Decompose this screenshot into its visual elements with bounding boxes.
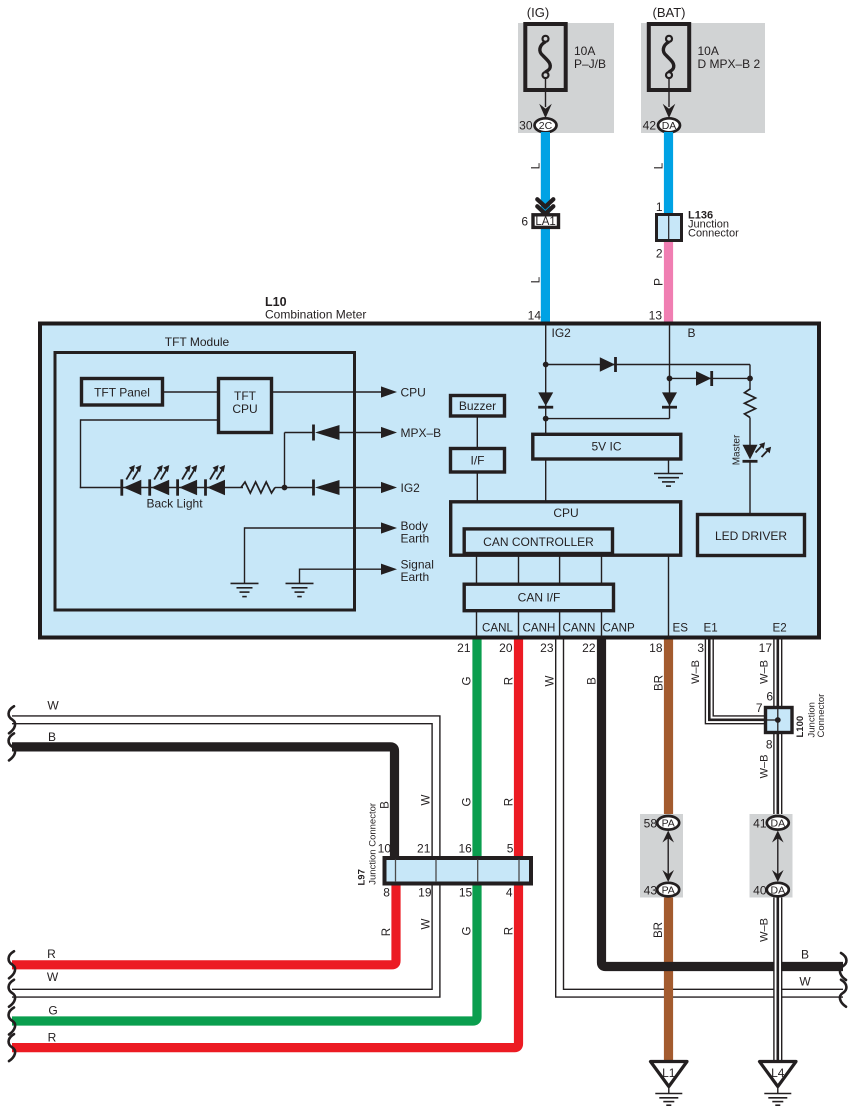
svg-text:CPU: CPU (232, 402, 257, 416)
svg-text:DA: DA (771, 884, 786, 896)
svg-text:G: G (461, 797, 474, 806)
svg-text:6: 6 (521, 215, 528, 229)
node master branch (747, 376, 753, 382)
wire TFT Panel to TFT CPU (164, 391, 217, 393)
wire IG2 internal (545, 325, 547, 433)
resistor backlight (241, 482, 275, 493)
brace W top left (9, 706, 16, 733)
svg-text:10A: 10A (574, 44, 595, 58)
svg-text:7: 7 (756, 701, 763, 715)
wire W top left to L97 pin 21 (12, 720, 436, 856)
wire B pin 22 to right (602, 640, 844, 967)
svg-text:Back Light: Back Light (147, 497, 204, 511)
ground signal earth (286, 582, 314, 584)
svg-text:LED DRIVER: LED DRIVER (715, 529, 787, 543)
node 5V IC feed (543, 416, 549, 422)
connector pair PA background (640, 814, 683, 898)
connector pin 43 PA (657, 883, 679, 897)
svg-text:40: 40 (753, 883, 767, 897)
svg-text:TFT: TFT (234, 389, 257, 403)
combination meter box L10 (40, 324, 819, 638)
svg-text:23: 23 (540, 641, 554, 655)
LED DRIVER box (698, 515, 805, 556)
CAN I/F box (464, 584, 613, 611)
node backlight junction (282, 485, 288, 491)
svg-text:58: 58 (644, 817, 658, 831)
svg-text:CANP: CANP (603, 622, 635, 635)
svg-text:Connector: Connector (688, 228, 739, 240)
svg-text:IG2: IG2 (552, 326, 572, 340)
brace R left (9, 951, 16, 978)
svg-text:W: W (47, 970, 59, 984)
svg-text:B: B (585, 677, 598, 685)
svg-text:L97: L97 (357, 869, 368, 885)
svg-text:5V IC: 5V IC (591, 440, 621, 454)
svg-text:CANL: CANL (482, 622, 513, 635)
svg-text:B: B (801, 948, 809, 962)
fuse 10A P-J/B (525, 24, 565, 90)
arrow between DA connectors (777, 834, 779, 878)
svg-text:16: 16 (458, 841, 472, 855)
svg-text:Earth: Earth (401, 570, 430, 584)
backlight LED 2 (148, 479, 151, 495)
svg-text:R: R (47, 947, 56, 961)
svg-text:DA: DA (662, 120, 677, 132)
svg-text:G: G (461, 676, 474, 685)
svg-text:DA: DA (771, 818, 786, 830)
connector pin 30 (535, 118, 557, 132)
brace G left (9, 1008, 16, 1035)
svg-text:W: W (47, 699, 59, 713)
svg-text:21: 21 (417, 841, 431, 855)
svg-text:BR: BR (652, 922, 665, 938)
ground body earth (231, 582, 259, 584)
svg-text:Combination Meter: Combination Meter (265, 308, 366, 322)
brace W right (840, 980, 847, 1007)
wire TFT CPU left to backlight chain (81, 419, 219, 421)
svg-text:R: R (502, 677, 515, 685)
svg-text:BR: BR (652, 675, 665, 691)
svg-text:Connector: Connector (816, 694, 827, 738)
junction connector L100 (766, 708, 793, 733)
svg-text:(BAT): (BAT) (653, 5, 686, 20)
backlight LED 4 (204, 479, 207, 495)
svg-text:W–B: W–B (759, 918, 771, 942)
diode down on B line (662, 392, 677, 406)
wire R L97 pin 8 to left (12, 886, 396, 965)
svg-text:L4: L4 (771, 1066, 785, 1080)
brace B right (840, 953, 847, 980)
connector pair DA background (750, 814, 793, 898)
svg-text:8: 8 (766, 738, 773, 752)
svg-text:IG2: IG2 (401, 481, 421, 495)
connector LA1 (533, 215, 559, 228)
wire fuse 10A D MPX-B 2 to connector (668, 78, 670, 107)
svg-text:W: W (420, 918, 433, 929)
brace W bottom left (9, 980, 16, 1007)
wire IG2 to diode D1 (546, 364, 750, 366)
svg-text:TFT Panel: TFT Panel (94, 386, 150, 400)
svg-text:30: 30 (519, 119, 533, 133)
svg-text:L100: L100 (795, 716, 806, 738)
CPU box (451, 502, 681, 555)
svg-text:8: 8 (383, 885, 390, 899)
svg-text:I/F: I/F (471, 454, 485, 468)
wire fuse 10A P-J/B to connector (545, 78, 547, 107)
wire diode outputs join (546, 418, 670, 420)
svg-text:1: 1 (656, 200, 663, 214)
junction connector L97 (385, 858, 532, 884)
svg-text:43: 43 (644, 883, 658, 897)
svg-text:L: L (652, 162, 666, 169)
wire W-B E1 pin 3 to L100 pin 7 (709, 640, 766, 720)
wire G pin 21 to bottom left (12, 640, 477, 1022)
junction connector L136 (657, 215, 682, 241)
svg-text:20: 20 (499, 641, 513, 655)
svg-text:R: R (380, 928, 393, 936)
ground L4 (760, 1062, 797, 1087)
svg-text:PA: PA (662, 818, 675, 830)
backlight LED 3 (176, 479, 179, 495)
svg-text:P: P (652, 278, 666, 286)
wire signal earth (300, 568, 383, 570)
svg-text:15: 15 (459, 885, 473, 899)
svg-text:2C: 2C (539, 120, 553, 132)
splice chevrons on IG wire (537, 199, 553, 207)
svg-text:Master: Master (732, 434, 743, 465)
wire junction to IG2 diode (285, 487, 314, 489)
svg-text:MPX–B: MPX–B (401, 426, 442, 440)
svg-text:18: 18 (649, 641, 663, 655)
svg-text:TFT Module: TFT Module (165, 335, 230, 349)
fuse block background 10A D MPX-B 2 (641, 23, 765, 133)
wire B to diode D2 (670, 377, 751, 379)
TFT Panel box (82, 379, 163, 406)
svg-text:Earth: Earth (401, 532, 430, 546)
svg-text:CAN I/F: CAN I/F (518, 591, 561, 605)
wire body earth (245, 527, 383, 529)
connector pin 40 DA (767, 883, 789, 897)
connector pin 58 PA (657, 816, 679, 830)
svg-text:R: R (502, 798, 515, 806)
svg-text:2: 2 (656, 247, 663, 261)
svg-text:R: R (48, 1031, 57, 1045)
svg-text:CANH: CANH (523, 622, 556, 635)
svg-text:W: W (420, 794, 433, 805)
svg-text:L1: L1 (662, 1066, 676, 1080)
svg-text:ES: ES (673, 622, 689, 635)
wire B left to L97 pin 10 (12, 747, 395, 856)
LED master (743, 445, 758, 460)
svg-text:G: G (48, 1004, 57, 1018)
TFT module box (55, 353, 355, 611)
svg-text:Buzzer: Buzzer (459, 399, 496, 413)
svg-text:P–J/B: P–J/B (574, 57, 606, 71)
wire BR pin 18 to ground L1 (664, 640, 673, 1062)
svg-text:6: 6 (766, 690, 773, 704)
wires CAN controller to CAN IF (476, 555, 478, 584)
wire L blue from fuse BAT pin DA to junction L136 (664, 132, 673, 214)
TFT CPU box (219, 379, 272, 433)
node B line (667, 376, 673, 382)
wire R pin 20 to bottom left (12, 640, 519, 1048)
brace B left (9, 733, 16, 760)
svg-text:10A: 10A (698, 44, 719, 58)
diode to MPX-B (312, 425, 315, 441)
ground L1 (651, 1062, 688, 1087)
svg-text:17: 17 (759, 641, 773, 655)
svg-text:21: 21 (457, 641, 471, 655)
arrow between PA connectors (667, 834, 669, 878)
wire junction to MPX-B diode (284, 433, 286, 488)
wires CAN IF to pins (476, 610, 478, 638)
svg-text:3: 3 (697, 641, 704, 655)
wire buzzer to IF (476, 416, 478, 448)
svg-text:L: L (529, 276, 543, 283)
svg-text:L: L (529, 162, 543, 169)
diode to IG2 (312, 480, 315, 496)
wire B internal (669, 325, 671, 419)
ground 5V IC (668, 459, 670, 474)
Buzzer box (451, 396, 505, 417)
svg-text:19: 19 (418, 885, 432, 899)
backlight LED chain wire (80, 487, 243, 489)
svg-text:41: 41 (753, 817, 767, 831)
5V IC box (533, 434, 681, 459)
svg-text:Junction Connector: Junction Connector (368, 803, 379, 885)
CAN CONTROLLER box (464, 529, 612, 554)
svg-text:R: R (502, 927, 515, 935)
svg-text:W–B: W–B (759, 755, 771, 779)
backlight LED 1 (120, 479, 123, 495)
node IG2 top (543, 362, 549, 368)
svg-text:W: W (544, 675, 557, 686)
svg-text:CPU: CPU (553, 506, 578, 520)
svg-text:4: 4 (506, 885, 513, 899)
I/F box (451, 449, 505, 473)
wire IF to CPU (476, 472, 478, 501)
svg-text:B: B (378, 801, 391, 809)
wire ES internal (668, 555, 670, 638)
svg-text:D MPX–B 2: D MPX–B 2 (698, 57, 761, 71)
wire W pin 23 to bottom right (560, 640, 843, 994)
svg-text:E1: E1 (704, 622, 718, 635)
svg-text:W–B: W–B (759, 660, 771, 684)
svg-text:W: W (799, 975, 811, 989)
svg-text:LA1: LA1 (535, 216, 555, 228)
svg-text:10: 10 (378, 841, 392, 855)
svg-text:22: 22 (582, 641, 596, 655)
svg-text:CAN CONTROLLER: CAN CONTROLLER (483, 535, 594, 549)
svg-text:CPU: CPU (401, 386, 426, 400)
svg-text:CANN: CANN (563, 622, 596, 635)
svg-text:B: B (688, 326, 696, 340)
wire 5VIC to CPU (545, 459, 547, 501)
svg-text:W–B: W–B (690, 660, 702, 684)
wire L blue from fuse IG pin 2C to pin 14 (541, 132, 550, 322)
resistor master (745, 389, 756, 418)
fuse 10A D MPX-B 2 (649, 24, 689, 90)
svg-text:B: B (48, 730, 56, 744)
wire LED to LED DRIVER (749, 461, 751, 514)
wire TFT CPU to CPU output (273, 391, 382, 393)
connector pin 42 (658, 118, 680, 132)
svg-text:13: 13 (649, 309, 663, 323)
diode down on IG2 line (538, 392, 553, 406)
fuse block background 10A P-J/B (518, 23, 614, 133)
wire W-B E2 pin 17 to ground L4 (773, 640, 782, 1062)
connector pin 41 DA (767, 816, 789, 830)
diode D2 (696, 371, 711, 386)
brace R bottom left (9, 1034, 16, 1061)
svg-text:5: 5 (507, 841, 514, 855)
svg-text:14: 14 (528, 309, 542, 323)
svg-text:PA: PA (662, 884, 675, 896)
wire P pink from junction L136 to pin 13 (664, 241, 673, 322)
wire W L97 pin 19 to bottom left (12, 886, 436, 994)
svg-text:E2: E2 (773, 622, 787, 635)
diode D1 (600, 357, 615, 372)
svg-text:(IG): (IG) (527, 5, 549, 20)
svg-text:42: 42 (643, 119, 657, 133)
svg-text:G: G (461, 926, 474, 935)
